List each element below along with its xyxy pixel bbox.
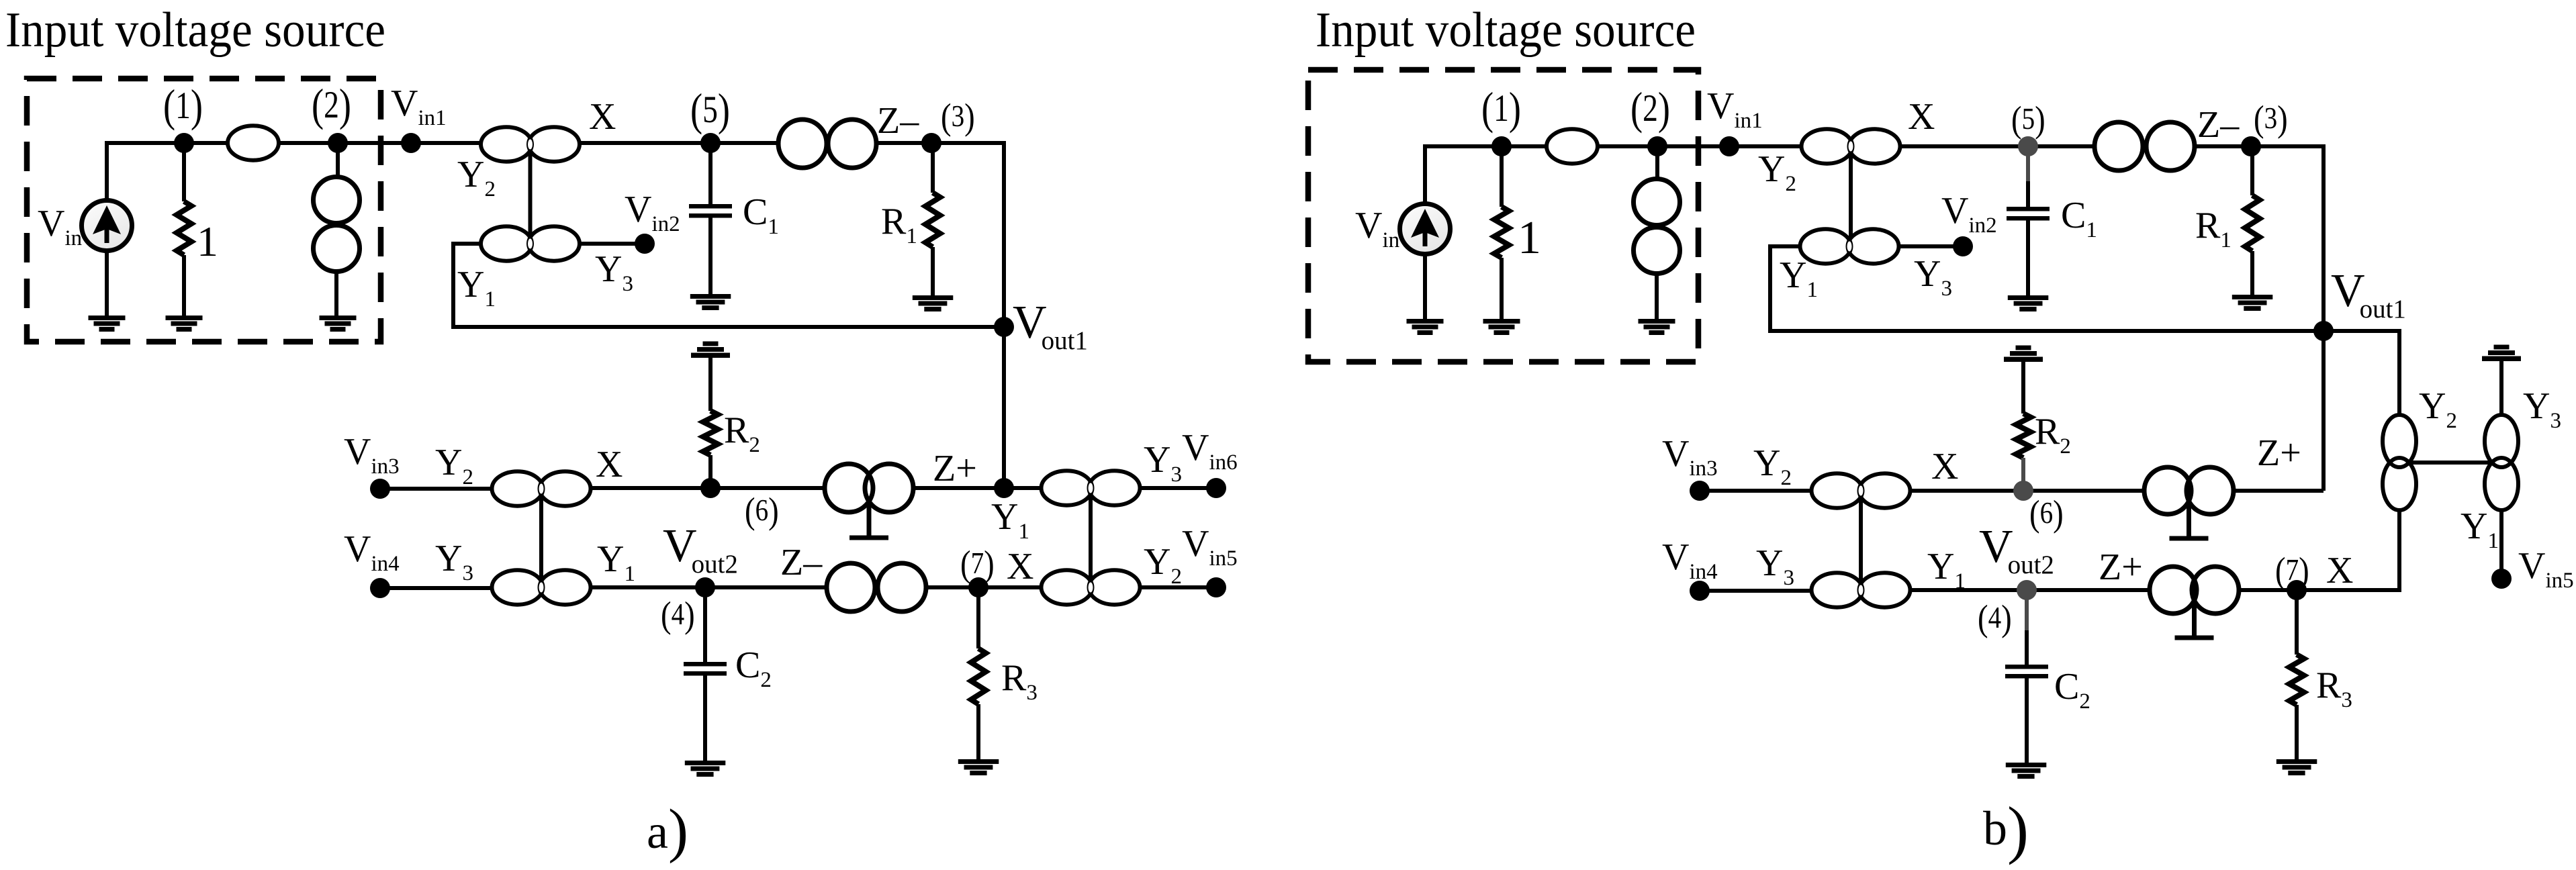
wire node2 to norator (b)	[1655, 146, 1659, 179]
svg-text:X: X	[1931, 446, 1958, 487]
wire X to node 5 (b)	[1900, 144, 2028, 148]
svg-text:X: X	[2326, 550, 2353, 591]
svg-text:(2): (2)	[312, 80, 351, 130]
label (5) (a)	[690, 85, 730, 135]
inverted ground above R2 (b)	[2004, 346, 2043, 362]
node Vin3 (b)	[1690, 481, 1710, 501]
wire R1 to ground (b)	[2250, 251, 2254, 295]
node Vout1 (b)	[2313, 321, 2334, 341]
wire Y1 feedback to Vout1 (a)	[453, 244, 1004, 327]
inverted ground above Y3 (b)	[2482, 345, 2521, 362]
node Vin5 (a)	[1206, 577, 1226, 597]
node 3 (a)	[921, 133, 941, 153]
svg-text:(2): (2)	[1630, 83, 1670, 134]
wire Z+ to Vout1 vertical (b)	[2232, 489, 2324, 493]
wire C2 to ground (b)	[2025, 677, 2029, 763]
wire node4 to C2 (a)	[703, 587, 707, 663]
wire ground to R2 (b)	[2021, 362, 2025, 414]
resistor value 1 (b)	[1494, 207, 1509, 258]
wire node2 to norator (a)	[336, 143, 340, 176]
node 6 (a)	[700, 478, 721, 498]
svg-text:Input voltage source: Input voltage source	[5, 3, 385, 58]
svg-text:X: X	[596, 444, 623, 485]
wire Vin4 to CDTA2 Y3 (b)	[1700, 589, 1811, 593]
ground below resistor 1 (b)	[1483, 319, 1520, 335]
svg-text:a): a)	[647, 797, 688, 864]
norator circle pair (a)	[314, 177, 360, 272]
simple ground below Z+ row2 (b)	[2175, 604, 2214, 638]
wire node1 to nullator (a)	[184, 141, 228, 145]
svg-text:(5): (5)	[2011, 100, 2045, 140]
ground below norator (a)	[320, 316, 357, 332]
node 6 (b)	[2013, 481, 2033, 501]
capacitor C2 (b)	[2005, 665, 2048, 679]
wire C1 to ground (a)	[708, 216, 712, 294]
wire node2 to Vin1 (a)	[338, 141, 411, 145]
label (6) (b)	[2029, 494, 2064, 534]
wire node5 to Z- source (a)	[710, 141, 778, 145]
wire C2 to ground (a)	[703, 674, 707, 761]
wire node4 to Z+ source (b)	[2027, 588, 2152, 592]
resistor R2 (b)	[2016, 414, 2031, 458]
node 5 (b)	[2018, 136, 2038, 156]
wire nullator to node 2 (b)	[1598, 144, 1657, 148]
wire node5 to Z- source (b)	[2028, 144, 2095, 148]
wire Vout1 down to Y1 node (a)	[1002, 327, 1006, 488]
wire resistor 1 bottom lead (a)	[182, 255, 186, 316]
wire node7 to R3 (b)	[2295, 590, 2299, 655]
ground below resistor 1 (a)	[166, 316, 203, 332]
wire ground to R2 (a)	[708, 358, 712, 411]
wire nullator to node 2 (a)	[279, 141, 338, 145]
ground below C2 (a)	[685, 761, 726, 777]
wire R1 to ground (a)	[931, 247, 935, 295]
wire R2 to node 6 gray (b)	[2021, 458, 2025, 491]
label (6) (a)	[745, 491, 779, 532]
capacitor C1 (a)	[689, 204, 732, 218]
svg-text:Z+: Z+	[2099, 546, 2143, 588]
label (5) (b)	[2011, 100, 2045, 140]
wire X to node 6 (b)	[1911, 489, 2023, 493]
node Vin2 (a)	[635, 234, 655, 254]
ground below C1 (a)	[690, 294, 731, 310]
ground below R1 (b)	[2232, 295, 2273, 311]
CDTA4 port pair Y3/Y1 (vertical) (b)	[2485, 415, 2518, 510]
CDTA2 port pair Y2/X (a)	[492, 471, 591, 505]
svg-text:(6): (6)	[745, 491, 779, 532]
wire X to node 5 (a)	[580, 141, 710, 145]
label (1) (a)	[163, 81, 203, 131]
svg-text:1: 1	[197, 217, 218, 265]
wire Vin4 to CDTA2 Y3 (a)	[380, 586, 492, 590]
capacitor C2 (a)	[684, 662, 727, 676]
resistor R1 (b)	[2245, 195, 2260, 251]
node 5 (a)	[700, 133, 721, 153]
svg-text:Z+: Z+	[933, 448, 977, 489]
svg-text:(6): (6)	[2029, 494, 2064, 534]
dependent source Z- (b)	[2095, 122, 2195, 171]
CDTA4 port pair Y2 (vertical) (b)	[2383, 415, 2416, 510]
wire Y1 to node 4 (b)	[1911, 588, 2027, 592]
node 2 (b)	[1647, 136, 1667, 156]
resistor value 1 (a)	[177, 201, 191, 255]
wire Y2 pair down to X row (b)	[2297, 509, 2399, 590]
svg-text:(7): (7)	[2275, 551, 2309, 591]
wire Vin3 to CDTA2 Y2 (a)	[380, 487, 492, 491]
wire node6 to Z+ source (b)	[2023, 489, 2146, 493]
wire Vin to node 1 (a)	[107, 143, 184, 199]
nullator ellipse (a)	[228, 126, 279, 160]
ground below C1 (b)	[2008, 295, 2049, 311]
norator circle pair (b)	[1634, 179, 1680, 274]
svg-text:Z+: Z+	[2257, 432, 2301, 474]
svg-text:b): b)	[1983, 793, 2029, 865]
wire Z- to node 3 (a)	[876, 141, 931, 145]
inverted ground above R2 (a)	[691, 342, 730, 358]
label (3) (a)	[941, 97, 975, 138]
svg-text:(7): (7)	[960, 544, 995, 585]
wire Vin1 to Y2 port (b)	[1729, 144, 1801, 148]
node 4 Vout2 (b)	[2017, 580, 2037, 600]
ground below norator (b)	[1639, 319, 1675, 335]
svg-text:(5): (5)	[690, 85, 730, 135]
simple ground below Z+ (a)	[849, 502, 888, 538]
CDTA1 port pair Y2/X (b)	[1802, 129, 1900, 163]
svg-text:(3): (3)	[2254, 99, 2288, 140]
label (4) (b)	[1978, 599, 2012, 639]
CDTA2 port pair Y2/X (b)	[1812, 473, 1911, 507]
wire node3 to Vout1 (a)	[931, 143, 1004, 327]
dependent source Z+ row2 (b)	[2150, 567, 2239, 614]
label (4) (a)	[661, 595, 695, 636]
svg-text:Z–: Z–	[780, 542, 823, 583]
node 7 (b)	[2287, 580, 2307, 600]
node 3 (b)	[2241, 136, 2261, 156]
wire node7 to R3 (a)	[976, 587, 980, 648]
wire norator to ground (b)	[1655, 273, 1659, 319]
wire Vin to ground (a)	[105, 250, 109, 316]
wire node6 to Z+ source (a)	[710, 486, 825, 490]
wire node4 to Z- source (a)	[705, 585, 827, 589]
source Vin (b)	[1400, 204, 1451, 254]
resistor R3 (a)	[971, 648, 986, 704]
ground below C2 (b)	[2006, 763, 2047, 779]
node Vin4 (a)	[370, 578, 390, 598]
wire C1 to ground (b)	[2026, 217, 2030, 295]
wire Z- to node 3 (b)	[2195, 144, 2251, 148]
label (7) (b)	[2275, 551, 2309, 591]
input source box (a)	[27, 79, 381, 342]
wire node2 to Vin1 (b)	[1657, 144, 1729, 148]
wire node4 gray segment (b)	[2025, 590, 2029, 632]
svg-text:X: X	[1007, 546, 1033, 587]
label (3) (b)	[2254, 99, 2288, 140]
svg-text:(3): (3)	[941, 97, 975, 138]
label (1) (b)	[1481, 83, 1521, 134]
ground below R1 (a)	[913, 295, 954, 311]
wire Y3 to Vin2 (b)	[1899, 244, 1963, 248]
wire node5 to C1 (b)	[2026, 181, 2030, 209]
dependent source Z- (a)	[778, 119, 876, 168]
capacitor C1 (b)	[2007, 207, 2050, 221]
wire CDTA1 internal vertical (b)	[1849, 155, 1853, 238]
input source box (b)	[1308, 70, 1698, 362]
wire node3 to R1 (b)	[2250, 146, 2254, 195]
node 2 (a)	[328, 133, 348, 153]
svg-text:X: X	[589, 96, 616, 138]
wire Y2 to Vin5 (a)	[1140, 585, 1216, 589]
dependent source Z- row2 (a)	[827, 563, 926, 612]
wire node3 to Vout1 (b)	[2251, 146, 2324, 331]
wire node7 to CDTA3 X (a)	[978, 585, 1042, 589]
wire node5 gray segment (b)	[2026, 146, 2030, 183]
resistor R1 (a)	[925, 193, 940, 247]
label (2) (a)	[312, 80, 351, 130]
wire resistor 1 bottom lead (b)	[1500, 258, 1504, 319]
node 4 Vout2 (a)	[695, 577, 715, 597]
wire Y1 to Vin5 (b)	[2499, 509, 2503, 579]
node 7 (a)	[968, 577, 988, 597]
wire node3 to R1 (a)	[931, 143, 935, 193]
wire Vin3 to CDTA2 Y2 (b)	[1700, 489, 1811, 493]
node Vin1 (a)	[401, 133, 421, 153]
wire Vout1 to Y2 vertical pair (b)	[2324, 331, 2399, 416]
CDTA3 port pair X/Y2 (a)	[1042, 570, 1140, 604]
svg-text:Input voltage source: Input voltage source	[1316, 3, 1696, 58]
resistor R3 (b)	[2289, 655, 2304, 705]
source Vin (a)	[82, 201, 132, 251]
node Vout1 (a)	[994, 317, 1014, 337]
svg-text:Z–: Z–	[2197, 104, 2240, 146]
svg-text:X: X	[1908, 96, 1935, 138]
wire R3 to ground (a)	[976, 704, 980, 759]
node Vin1 (b)	[1719, 136, 1739, 156]
nullator ellipse (b)	[1547, 129, 1598, 163]
wire R3 to ground (b)	[2295, 705, 2299, 759]
wire Y3 to Vin2 (a)	[580, 242, 645, 246]
wire node5 to C1 (a)	[708, 143, 712, 205]
wire CDTA1 internal vertical (a)	[528, 153, 533, 235]
svg-text:(1): (1)	[1481, 83, 1521, 134]
resistor R2 (a)	[703, 411, 718, 455]
wire junction to CDTA3 Y3 (a)	[1004, 486, 1042, 490]
wire Vin1 to Y2 port (a)	[411, 141, 481, 145]
node Y1/Vout1 junction (a)	[994, 478, 1014, 498]
wire node1 to nullator (b)	[1502, 144, 1547, 148]
CDTA2 port pair Y3/Y1 (a)	[492, 570, 591, 604]
wire Vout1 down to Z+ (b)	[2321, 331, 2326, 491]
CDTA1 port pair Y2/X (a)	[481, 127, 580, 161]
node Vin4 (b)	[1690, 581, 1710, 601]
dependent source Z+ (a)	[825, 464, 913, 512]
wire resistor 1 top lead (a)	[182, 143, 186, 201]
wire Vin to node 1 (b)	[1425, 146, 1502, 203]
wire node4 to C2 (b)	[2025, 630, 2029, 666]
wire R2 to node 6 (a)	[708, 455, 712, 488]
wire Z+ to Y1 node (a)	[913, 486, 1004, 490]
wire Vin to ground (b)	[1423, 254, 1427, 319]
label (2) (b)	[1630, 83, 1670, 134]
wire Z+ to node 7 (b)	[2237, 588, 2297, 592]
svg-text:(1): (1)	[163, 81, 203, 131]
ground below R3 (b)	[2276, 759, 2317, 775]
wire Z- to node 7 (a)	[926, 585, 978, 589]
ground below R3 (a)	[958, 759, 999, 775]
wire ground to Y3 (b)	[2499, 361, 2503, 417]
CDTA1 port pair Y1/Y3 (a)	[481, 226, 580, 260]
svg-text:1: 1	[1518, 212, 1541, 264]
wire resistor 1 top lead (b)	[1500, 146, 1504, 207]
wire Y1 feedback to Vout1 (b)	[1770, 246, 2324, 331]
svg-text:Z–: Z–	[877, 100, 919, 142]
svg-text:(4): (4)	[1978, 599, 2012, 639]
wire Y3 to Vin6 (a)	[1140, 486, 1216, 490]
ground below Vin (b)	[1407, 319, 1444, 335]
node 1 (b)	[1491, 136, 1512, 156]
wire CDTA4 internal horizontal (b)	[2407, 461, 2493, 465]
wire CDTA3 internal vertical (a)	[1089, 497, 1093, 579]
label (7) (a)	[960, 544, 995, 585]
node 1 (a)	[174, 133, 194, 153]
wire norator to ground (a)	[334, 271, 338, 316]
ground below Vin (a)	[89, 316, 126, 332]
node Vin6 (a)	[1206, 478, 1226, 498]
dependent source Z+ row1 (b)	[2144, 467, 2234, 514]
simple ground below Z+ row1 (b)	[2170, 505, 2209, 538]
wire X to node 6 (a)	[591, 486, 710, 490]
wire CDTA2 internal vertical (b)	[1859, 499, 1863, 581]
wire CDTA2 internal vertical (a)	[539, 497, 543, 579]
CDTA3 port pair Y3/Y1 (a)	[1042, 471, 1140, 505]
node Vin2 (b)	[1953, 236, 1973, 256]
node Vin5 (b)	[2491, 569, 2512, 589]
svg-text:(4): (4)	[661, 595, 695, 636]
CDTA1 port pair Y1/Y3 (b)	[1800, 229, 1899, 263]
node Vin3 (a)	[370, 479, 390, 499]
wire Y1 to node 4 (a)	[591, 585, 705, 589]
CDTA2 port pair Y3/Y1 (b)	[1812, 573, 1911, 607]
